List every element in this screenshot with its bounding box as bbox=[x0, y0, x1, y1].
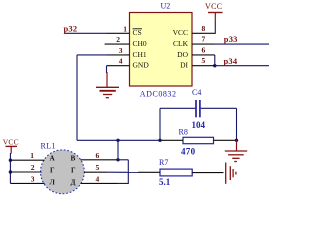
RL1 pin 6 bbox=[81, 159, 118, 161]
junction CH1/RL1 bbox=[116, 139, 119, 142]
wire main horizontal (CH1 net) bbox=[77, 139, 160, 141]
svg-text:DI: DI bbox=[180, 61, 188, 70]
svg-text:Г: Г bbox=[50, 167, 55, 175]
capacitor C4 bbox=[160, 100, 237, 117]
svg-text:5: 5 bbox=[202, 56, 206, 65]
svg-text:DO: DO bbox=[177, 50, 188, 59]
svg-text:5: 5 bbox=[96, 163, 100, 172]
svg-text:U2: U2 bbox=[161, 2, 171, 11]
svg-text:Д: Д bbox=[71, 179, 76, 187]
IC U2 ADC0832 body bbox=[130, 13, 193, 87]
RL1 pin 1 bbox=[10, 159, 44, 161]
pin name CS (pin 1) bbox=[133, 28, 143, 37]
pin 8 stub bbox=[192, 32, 215, 34]
svg-text:CS: CS bbox=[133, 28, 142, 37]
svg-text:p34: p34 bbox=[224, 56, 238, 66]
RL1 pin 4 bbox=[81, 182, 118, 184]
svg-text:104: 104 bbox=[192, 120, 206, 130]
RL1 pin 2 bbox=[10, 171, 41, 173]
wire RL1 left bus vertical bbox=[9, 160, 11, 183]
svg-text:2: 2 bbox=[31, 163, 35, 172]
power VCC (left) bbox=[3, 138, 19, 154]
pin 5 stub bbox=[192, 65, 215, 67]
svg-text:p32: p32 bbox=[64, 24, 78, 34]
svg-text:R7: R7 bbox=[159, 158, 168, 167]
relay RL1 body bbox=[41, 150, 85, 194]
wire pin8 to VCC bbox=[214, 23, 216, 34]
ground (power gnd right) bbox=[225, 140, 247, 161]
junction R8/C4/ground bbox=[235, 139, 238, 142]
resistor R8 bbox=[160, 137, 237, 143]
RL1 pin 5 bbox=[84, 171, 106, 173]
svg-text:4: 4 bbox=[119, 57, 123, 66]
wire p34 net bbox=[215, 65, 270, 67]
pin 2 stub bbox=[105, 43, 130, 45]
wire p32 net bbox=[64, 32, 107, 34]
svg-text:7: 7 bbox=[202, 35, 206, 44]
wire C4 right vertical bbox=[236, 108, 238, 140]
ground (earth, right of R7) bbox=[226, 163, 236, 184]
svg-text:В: В bbox=[71, 155, 76, 163]
svg-text:VCC: VCC bbox=[205, 2, 222, 11]
svg-text:4: 4 bbox=[96, 174, 100, 183]
svg-text:VCC: VCC bbox=[173, 28, 188, 37]
svg-text:1: 1 bbox=[30, 151, 34, 160]
svg-text:470: 470 bbox=[181, 146, 196, 156]
svg-text:А: А bbox=[50, 155, 56, 163]
svg-text:VCC: VCC bbox=[3, 138, 19, 147]
junction CH1/R8 bbox=[158, 139, 161, 142]
wire CH1 horizontal bbox=[77, 54, 107, 56]
junction RL1 pin6 bbox=[116, 158, 119, 161]
svg-text:6: 6 bbox=[202, 45, 206, 54]
svg-text:p33: p33 bbox=[224, 34, 238, 44]
pin 6 stub bbox=[192, 54, 215, 56]
svg-text:C4: C4 bbox=[192, 88, 201, 97]
ground (power gnd at GND pin) bbox=[96, 72, 119, 98]
svg-text:Л: Л bbox=[50, 179, 56, 187]
svg-text:Г: Г bbox=[71, 167, 76, 175]
svg-text:ADC0832: ADC0832 bbox=[140, 89, 177, 98]
wire pin5 to R7 bbox=[106, 171, 138, 173]
wire pin4 to pin6 right vertical bbox=[117, 160, 128, 184]
wire DO to DI bbox=[214, 55, 216, 66]
svg-text:1: 1 bbox=[123, 24, 127, 33]
wire CH1 vertical bbox=[76, 55, 78, 140]
RL1 pin 3 bbox=[10, 182, 44, 184]
wire C4 left vertical bbox=[159, 108, 161, 140]
junction RL1 pin2 bbox=[9, 170, 12, 173]
junction DO/DI bbox=[213, 64, 216, 67]
junction RL1 pin1 bbox=[9, 159, 12, 162]
svg-text:8: 8 bbox=[202, 24, 206, 33]
svg-text:5.1: 5.1 bbox=[159, 177, 171, 187]
wire GND pin to ground bbox=[106, 66, 108, 73]
svg-text:3: 3 bbox=[119, 46, 123, 55]
svg-text:6: 6 bbox=[96, 151, 100, 160]
wire VCC to RL1 pins bbox=[9, 153, 11, 160]
wire pin6 to pin4 top bbox=[117, 159, 128, 161]
power VCC (top) bbox=[205, 2, 223, 23]
pin 3 stub bbox=[107, 54, 130, 56]
svg-text:CLK: CLK bbox=[173, 39, 189, 48]
svg-text:R8: R8 bbox=[179, 128, 188, 137]
svg-text:CH1: CH1 bbox=[133, 50, 147, 59]
resistor R7 bbox=[138, 169, 224, 176]
svg-text:2: 2 bbox=[116, 35, 120, 44]
pin 1 stub bbox=[107, 32, 130, 34]
svg-text:3: 3 bbox=[31, 174, 35, 183]
pin 7 stub bbox=[192, 43, 215, 45]
pin 4 stub bbox=[107, 65, 130, 67]
svg-text:RL1: RL1 bbox=[41, 141, 56, 150]
svg-text:CH0: CH0 bbox=[133, 39, 147, 48]
svg-text:GND: GND bbox=[133, 61, 150, 70]
wire RL1 pin6 drop bbox=[117, 140, 119, 160]
wire p33 net bbox=[215, 43, 270, 45]
